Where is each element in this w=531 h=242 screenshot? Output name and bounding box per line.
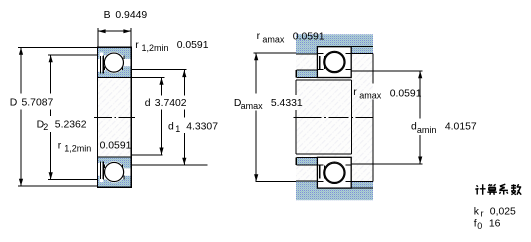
housing top-right strip edge line xyxy=(351,53,373,55)
dimension B arrow left xyxy=(98,29,105,33)
dimension damin arrow down xyxy=(418,157,422,164)
shaft strip left edge bottom (right view) xyxy=(295,157,297,165)
ball top (right view) xyxy=(325,52,344,71)
housing bottom-right strip (right view) xyxy=(351,182,373,189)
housing top-right strip (right view) xyxy=(351,47,373,54)
dimension Damax leader bottom xyxy=(256,181,296,183)
shaft body box bottom edge (right view) xyxy=(296,153,352,155)
bearing bottom edge (left view) xyxy=(97,186,132,188)
dimension d arrow down xyxy=(159,148,163,155)
svg-text:r: r xyxy=(257,31,261,42)
svg-text:1: 1 xyxy=(175,124,180,134)
shaft body box top edge (right view) xyxy=(296,79,352,81)
svg-text:0.9449: 0.9449 xyxy=(115,10,147,21)
svg-text:0.0591: 0.0591 xyxy=(100,140,132,151)
dimension D arrow up xyxy=(19,48,23,55)
bearing top edge (left view) xyxy=(97,46,132,48)
inner race shoulder lines bottom (right view) xyxy=(317,164,323,166)
outer race shoulder lines top (right view) xyxy=(317,52,323,54)
dimension d arrow up xyxy=(159,78,163,85)
glyph 算 xyxy=(487,184,497,195)
svg-text:d: d xyxy=(168,121,174,132)
ball top (left view) xyxy=(104,53,123,72)
shaft body box left side (right view) xyxy=(295,80,297,95)
material hatch block (right view) xyxy=(296,34,373,200)
svg-text:0.0591: 0.0591 xyxy=(390,88,422,99)
outer race shoulder lines bottom (right view) xyxy=(317,180,323,182)
shaft shoulder bottom edge line (right view) xyxy=(297,164,318,166)
shield slot top (left view) xyxy=(100,52,104,58)
dimension damin arrow up xyxy=(418,71,422,78)
svg-text:amin: amin xyxy=(417,125,437,135)
housing bore line bottom (right view) xyxy=(317,187,373,189)
dimension D2 extension line bottom xyxy=(48,179,97,181)
inner race shoulder lines top (right view) xyxy=(317,69,323,71)
dimension d line xyxy=(161,78,163,96)
ball race gap bottom (left view) xyxy=(103,161,124,182)
outer ring side tabs bottom (left view) xyxy=(97,176,103,187)
outer ring band bottom section (left view) xyxy=(97,179,131,187)
bearing right face line (left view) xyxy=(130,47,132,188)
svg-text:k: k xyxy=(474,206,480,217)
dimension Damax leader top xyxy=(254,52,297,54)
inner ring band top section (left view) xyxy=(105,70,132,77)
dimension damin extension line top xyxy=(351,70,422,72)
svg-text:3.7402: 3.7402 xyxy=(155,98,187,109)
svg-text:amax: amax xyxy=(262,34,285,44)
dimension d1 arrow up xyxy=(182,70,186,77)
dimension D line xyxy=(20,48,22,94)
svg-text:4.0157: 4.0157 xyxy=(445,122,477,133)
shaft shoulder strip bottom (right view) xyxy=(297,157,318,165)
bore edge line top section (left view) xyxy=(97,76,131,78)
race shoulder ticks top (left view) xyxy=(103,55,105,59)
svg-text:1,2min: 1,2min xyxy=(64,143,91,153)
dimension B arrow right xyxy=(123,29,130,33)
inner ring band bottom section (left view) xyxy=(105,157,132,164)
svg-text:2: 2 xyxy=(43,122,48,132)
svg-text:4.3307: 4.3307 xyxy=(186,121,218,132)
svg-text:amax: amax xyxy=(359,90,382,100)
dimension d extension line top xyxy=(131,76,164,78)
dimension D2 arrow up xyxy=(49,55,53,62)
inner ring right tab top (left view) xyxy=(123,66,132,77)
dimension D arrow down xyxy=(19,179,23,186)
glyph 系 xyxy=(499,184,508,194)
housing bottom-right strip edge line xyxy=(351,181,373,183)
svg-text:D: D xyxy=(10,97,18,108)
shaft shoulder strip top (right view) xyxy=(297,70,318,78)
shield slot bottom (left view) xyxy=(100,176,104,182)
outer ring side tabs top (left view) xyxy=(97,47,103,58)
dimension D2 arrow down xyxy=(49,172,53,179)
svg-text:r: r xyxy=(353,87,357,98)
dimension d1 line xyxy=(183,70,185,95)
svg-text:0.0591: 0.0591 xyxy=(293,31,325,42)
bore edge line bottom section (left view) xyxy=(97,156,131,158)
dimension damin extension line bottom xyxy=(351,163,422,165)
dimension Damax arrow up xyxy=(254,53,258,60)
shaft body box right side (right view) xyxy=(351,80,353,154)
outer ring band top section (left view) xyxy=(97,47,131,55)
svg-text:d: d xyxy=(145,98,151,109)
dimension D2 extension line top xyxy=(48,54,97,56)
dimension Damax line xyxy=(255,53,257,93)
shaft seat line top (right view) xyxy=(297,77,352,79)
shield bars bottom (right view) xyxy=(319,166,321,179)
bearing left face line (left view) xyxy=(96,47,98,188)
svg-text:5.2362: 5.2362 xyxy=(55,120,87,131)
ball bottom (right view) xyxy=(325,163,344,182)
housing right boundary line upper (right view) xyxy=(372,54,374,84)
heading 计算系数 (hand-drawn strokes) xyxy=(475,184,521,195)
dimension B extension lines xyxy=(97,28,99,47)
shaft shoulder top edge line (right view) xyxy=(297,69,318,71)
ball race gap top (left view) xyxy=(103,52,124,73)
dimension d extension line bottom xyxy=(131,154,162,156)
shaft strip left edge top (right view) xyxy=(295,70,297,78)
dimension d1 extension line bottom xyxy=(131,164,207,166)
svg-text:1,2min: 1,2min xyxy=(142,43,169,53)
housing top block (right view) xyxy=(296,34,373,46)
glyph 数 xyxy=(511,184,521,195)
dimension D extension line top xyxy=(18,46,98,48)
svg-text:0: 0 xyxy=(477,221,482,231)
housing top-left shoulder edge line xyxy=(296,53,317,55)
RIGHT VIEW xyxy=(254,34,423,200)
svg-text:r: r xyxy=(135,40,139,51)
housing bore line top (right view) xyxy=(317,46,373,48)
dimension damin line xyxy=(419,71,421,118)
shaft seat line bottom (right view) xyxy=(297,156,352,158)
LEFT VIEW xyxy=(18,28,208,188)
bearing body top (right view) xyxy=(317,47,351,78)
housing top-left shoulder (right view) xyxy=(296,47,317,54)
dimension D extension line bottom xyxy=(18,185,98,187)
svg-text:B: B xyxy=(104,10,111,21)
shield bars bottom (left view) xyxy=(99,161,101,179)
inner ring right tab bottom (left view) xyxy=(123,157,132,168)
glyph 计 xyxy=(475,184,485,194)
dimension B line xyxy=(98,30,131,32)
bearing body bottom (right view) xyxy=(317,157,351,188)
bore hatch area (left view) xyxy=(98,78,131,157)
svg-text:0,025: 0,025 xyxy=(490,206,516,217)
race shoulder ticks bottom (left view) xyxy=(103,176,105,180)
svg-text:r: r xyxy=(481,209,484,219)
svg-text:0.0591: 0.0591 xyxy=(177,40,209,51)
shield bars top (right view) xyxy=(319,56,321,69)
svg-text:r: r xyxy=(58,141,62,152)
dimension D2 line xyxy=(50,55,52,93)
dimension Damax arrow down xyxy=(254,174,258,181)
dimension d1 extension line top xyxy=(131,69,186,71)
housing right boundary line lower (right view) xyxy=(372,100,374,182)
race circle bottom (right view) xyxy=(324,162,346,184)
ball bottom (left view) xyxy=(105,162,124,181)
dimension d1 arrow down xyxy=(182,158,186,165)
svg-text:5.7087: 5.7087 xyxy=(22,97,54,108)
centerline (right view) xyxy=(294,116,374,118)
centerline (left view) xyxy=(94,116,135,118)
shield bars top (left view) xyxy=(99,56,101,74)
svg-text:amax: amax xyxy=(241,101,264,111)
svg-text:16: 16 xyxy=(489,219,501,230)
housing bottom-left shoulder (right view) xyxy=(296,181,317,188)
housing bottom block (right view) xyxy=(296,188,373,200)
race circle top (right view) xyxy=(324,51,346,73)
housing bottom-left shoulder edge line xyxy=(296,180,317,182)
svg-text:5.4331: 5.4331 xyxy=(271,98,303,109)
